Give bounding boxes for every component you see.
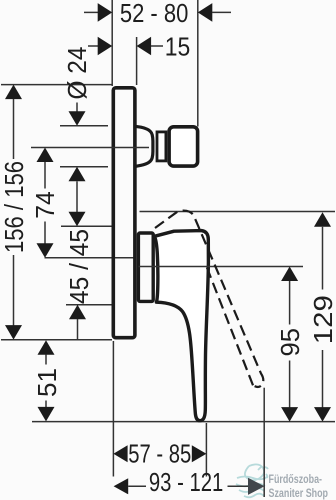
svg-text:52 - 80: 52 - 80	[120, 0, 189, 28]
svg-text:74: 74	[30, 191, 60, 219]
svg-text:Fürdőszoba-: Fürdőszoba-	[269, 472, 323, 486]
svg-text:129: 129	[308, 295, 336, 344]
svg-text:51: 51	[32, 368, 62, 397]
svg-text:156 / 156: 156 / 156	[0, 161, 29, 253]
svg-text:Ø 24: Ø 24	[62, 47, 92, 100]
svg-text:15: 15	[165, 31, 191, 61]
svg-text:Szaniter Shop: Szaniter Shop	[269, 486, 329, 500]
svg-text:95: 95	[275, 328, 305, 357]
svg-text:93 - 121: 93 - 121	[149, 467, 223, 497]
svg-text:45 / 45: 45 / 45	[64, 229, 94, 304]
svg-text:57 - 85: 57 - 85	[128, 439, 191, 469]
